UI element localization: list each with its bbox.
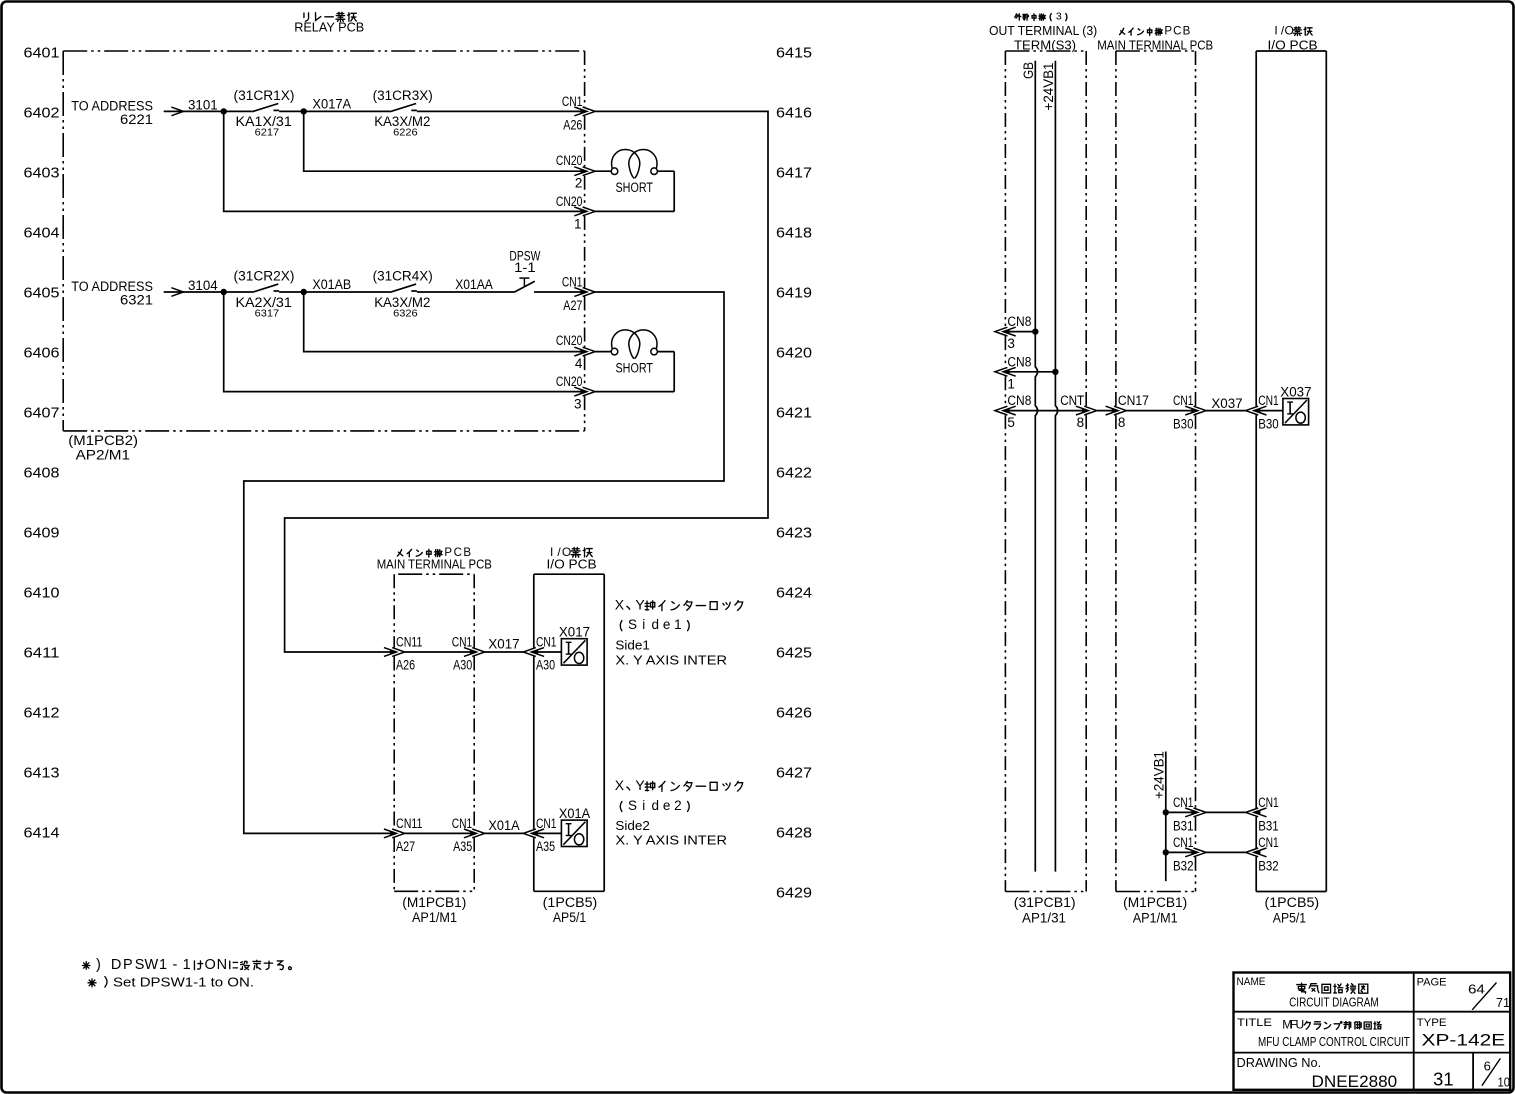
wire into I/O symbol X037 bbox=[1254, 410, 1283, 412]
svg-text:d: d bbox=[651, 617, 659, 632]
wire DPSW to CN1/A27 bbox=[534, 291, 585, 293]
svg-text:X037: X037 bbox=[1211, 396, 1242, 411]
svg-text:6423: 6423 bbox=[776, 524, 812, 541]
svg-text:S: S bbox=[628, 798, 637, 813]
svg-text:I/O PCB: I/O PCB bbox=[1268, 37, 1318, 52]
svg-text:I: I bbox=[1274, 23, 1277, 37]
svg-text:2: 2 bbox=[674, 798, 682, 813]
svg-text:+24VB1: +24VB1 bbox=[1151, 751, 1167, 799]
wire 3104 junction down to CN20/3 bbox=[224, 292, 585, 392]
svg-text:(31CR4X): (31CR4X) bbox=[373, 269, 433, 284]
svg-text:CN1: CN1 bbox=[536, 816, 557, 831]
svg-text:O: O bbox=[205, 957, 216, 973]
svg-text:X017: X017 bbox=[559, 625, 590, 640]
svg-text:64: 64 bbox=[1468, 981, 1485, 996]
wire between boxes bbox=[485, 651, 524, 653]
svg-text:6426: 6426 bbox=[776, 704, 812, 721]
svg-text:N: N bbox=[217, 957, 227, 973]
connector CN8 pin1 bbox=[1003, 371, 1055, 373]
svg-text:GB: GB bbox=[1020, 62, 1036, 79]
svg-text:3: 3 bbox=[1007, 336, 1015, 351]
title block frame bbox=[1234, 973, 1511, 1090]
svg-text:A27: A27 bbox=[396, 839, 415, 854]
svg-text:X. Y AXIS INTER: X. Y AXIS INTER bbox=[615, 833, 727, 847]
svg-text:Side1: Side1 bbox=[615, 638, 650, 652]
svg-text:3101: 3101 bbox=[188, 97, 218, 112]
net +24VB1 (bottom right) vertical bbox=[1165, 752, 1167, 882]
svg-text:SHORT: SHORT bbox=[616, 361, 654, 376]
wire into I/O symbol bbox=[532, 651, 562, 653]
junction dot at 3101 bbox=[221, 108, 227, 114]
svg-text:TITLE: TITLE bbox=[1237, 1017, 1272, 1029]
svg-text:CIRCUIT DIAGRAM: CIRCUIT DIAGRAM bbox=[1289, 995, 1379, 1010]
svg-text:MAIN TERMINAL PCB: MAIN TERMINAL PCB bbox=[377, 557, 492, 572]
svg-text:8: 8 bbox=[1118, 415, 1126, 430]
svg-text:A27: A27 bbox=[563, 298, 582, 313]
svg-text:6410: 6410 bbox=[24, 584, 60, 601]
svg-text:U: U bbox=[1295, 1018, 1304, 1032]
net GB vertical wire with hops bbox=[1035, 61, 1037, 872]
svg-text:CN20: CN20 bbox=[556, 153, 583, 168]
relay contact (31CR2X) KA2X/31 bbox=[252, 284, 278, 292]
connector CN1 B31 (main out) bbox=[1185, 808, 1198, 817]
svg-text:P: P bbox=[1164, 25, 1172, 37]
svg-text:O: O bbox=[1285, 23, 1294, 37]
main terminal headers (right) bbox=[1120, 28, 1125, 34]
svg-text:CN1: CN1 bbox=[1258, 835, 1279, 850]
svg-text:(31PCB1): (31PCB1) bbox=[1014, 895, 1076, 910]
svg-text:Set DPSW1-1 to ON.: Set DPSW1-1 to ON. bbox=[113, 975, 254, 990]
svg-text:B32: B32 bbox=[1258, 858, 1279, 873]
svg-text:XP-142E: XP-142E bbox=[1422, 1031, 1506, 1050]
main terminal PCB box (bottom, dashed, M1PCB1) bbox=[398, 573, 474, 575]
relay contact (31CR3X) KA3X/M2 bbox=[390, 104, 416, 112]
wire into I/O symbol bbox=[532, 832, 562, 834]
svg-text:6401: 6401 bbox=[24, 44, 60, 61]
svg-text:A30: A30 bbox=[536, 658, 555, 673]
svg-text:(1PCB5): (1PCB5) bbox=[543, 895, 598, 910]
svg-text:X017: X017 bbox=[488, 637, 519, 652]
svg-text:4: 4 bbox=[575, 356, 583, 371]
svg-text:6429: 6429 bbox=[776, 884, 812, 901]
svg-text:X017A: X017A bbox=[312, 97, 351, 112]
svg-text:AP1/M1: AP1/M1 bbox=[1133, 911, 1178, 926]
svg-text:6408: 6408 bbox=[24, 464, 60, 481]
svg-text:S: S bbox=[135, 957, 145, 973]
svg-text:I/O PCB: I/O PCB bbox=[547, 557, 597, 572]
svg-text:A35: A35 bbox=[453, 839, 472, 854]
connector CN20 pin3 bbox=[574, 387, 587, 396]
svg-text:6226: 6226 bbox=[393, 127, 418, 139]
connector CN20 pin4 bbox=[574, 347, 587, 356]
connector CN8 pin3 bbox=[1003, 331, 1035, 333]
svg-text:6403: 6403 bbox=[24, 164, 60, 181]
svg-text:6417: 6417 bbox=[776, 164, 812, 181]
svg-text:6427: 6427 bbox=[776, 764, 812, 781]
connector CNT pin8 (out term) bbox=[1076, 406, 1089, 415]
svg-text:6420: 6420 bbox=[776, 344, 812, 361]
svg-text:(31CR3X): (31CR3X) bbox=[373, 88, 433, 103]
wire +24VB1 to CN1 (main out) bbox=[1166, 811, 1196, 813]
svg-text:AP1/M1: AP1/M1 bbox=[412, 910, 457, 925]
svg-text:e: e bbox=[663, 617, 671, 632]
svg-text:X: X bbox=[615, 777, 625, 793]
main terminal PCB box (right, dashed, M1PCB1) bbox=[1116, 50, 1196, 52]
svg-text:B31: B31 bbox=[1258, 818, 1279, 833]
svg-text:A26: A26 bbox=[563, 118, 582, 133]
svg-text:CN1: CN1 bbox=[1258, 795, 1279, 810]
junction dot X01AB bbox=[301, 289, 307, 295]
svg-text:Side2: Side2 bbox=[615, 819, 650, 833]
svg-text:CN8: CN8 bbox=[1007, 314, 1031, 329]
svg-text:X01AB: X01AB bbox=[312, 277, 351, 292]
svg-text:3104: 3104 bbox=[188, 278, 218, 293]
main terminal PCB header (bottom) bbox=[397, 549, 402, 556]
svg-text:+24VB1: +24VB1 bbox=[1040, 62, 1056, 110]
relay contact (31CR1X) KA1X/31 bbox=[252, 104, 278, 112]
svg-text:6419: 6419 bbox=[776, 284, 812, 301]
svg-text:6404: 6404 bbox=[24, 224, 60, 241]
wire main to I/O bbox=[1206, 811, 1246, 813]
svg-text:Y: Y bbox=[635, 777, 645, 793]
svg-text:6415: 6415 bbox=[776, 44, 812, 61]
wire to X01AA bbox=[417, 291, 514, 293]
svg-text:CN1: CN1 bbox=[1258, 393, 1279, 408]
junction dot CN8/3 on GB bbox=[1032, 328, 1038, 334]
wire +24VB1 to CN1 (main out) bbox=[1166, 851, 1196, 853]
svg-text:6424: 6424 bbox=[776, 584, 812, 601]
svg-text:CN20: CN20 bbox=[556, 374, 583, 389]
svg-text:6406: 6406 bbox=[24, 344, 60, 361]
svg-text:TERM(S3): TERM(S3) bbox=[1014, 37, 1076, 52]
svg-text:X01A: X01A bbox=[559, 806, 590, 821]
svg-text:Y: Y bbox=[635, 597, 645, 613]
svg-text:i: i bbox=[642, 798, 645, 813]
svg-text:DNEE2880: DNEE2880 bbox=[1312, 1072, 1398, 1091]
svg-text:MAIN TERMINAL PCB: MAIN TERMINAL PCB bbox=[1097, 37, 1213, 52]
svg-text:AP5/1: AP5/1 bbox=[1273, 911, 1306, 926]
junction dot CN8/1 on +24VB1 bbox=[1052, 369, 1058, 375]
SHORT jumper plug 1 bbox=[595, 170, 611, 172]
svg-text:CN1: CN1 bbox=[452, 816, 473, 831]
wire main to I/O bbox=[1206, 851, 1246, 853]
svg-text:1: 1 bbox=[574, 216, 582, 231]
svg-text:(1PCB5): (1PCB5) bbox=[1265, 895, 1320, 910]
wire X017A junction down to CN20/2 bbox=[304, 111, 585, 171]
connector CN1 B30 (I/O in) bbox=[1254, 406, 1267, 415]
wire X01AB junction down to CN20/4 bbox=[304, 292, 585, 352]
svg-text:3: 3 bbox=[1056, 11, 1062, 23]
svg-text:TYPE: TYPE bbox=[1417, 1017, 1447, 1029]
svg-text:CN1: CN1 bbox=[562, 274, 583, 289]
svg-text:6414: 6414 bbox=[24, 824, 60, 841]
svg-text:B32: B32 bbox=[1173, 858, 1194, 873]
svg-text:-: - bbox=[172, 957, 177, 973]
svg-text:CN1: CN1 bbox=[452, 634, 473, 649]
svg-text:d: d bbox=[651, 798, 659, 813]
wire contact to X01AB junction bbox=[279, 291, 390, 293]
svg-text:CN20: CN20 bbox=[556, 333, 583, 348]
wire 3104 to contact bbox=[183, 291, 252, 293]
svg-text:DRAWING No.: DRAWING No. bbox=[1237, 1055, 1322, 1070]
connector CN1 (I/O in) bbox=[532, 829, 545, 838]
wire to CN1/A26 connector bbox=[417, 110, 585, 112]
connector CN20 pin2 bbox=[574, 167, 587, 176]
wire contact to X017A junction bbox=[279, 110, 390, 112]
out terminal headers bbox=[1015, 14, 1021, 20]
svg-text:W: W bbox=[145, 957, 159, 973]
svg-text:1: 1 bbox=[183, 957, 191, 973]
svg-text:X. Y AXIS INTER: X. Y AXIS INTER bbox=[615, 654, 727, 668]
svg-text:(31CR1X): (31CR1X) bbox=[234, 88, 295, 103]
svg-text:5: 5 bbox=[1007, 415, 1015, 430]
I/O symbol X017 bbox=[561, 639, 587, 665]
svg-text:6421: 6421 bbox=[776, 404, 812, 421]
net +24VB1 vertical wire with hops bbox=[1055, 61, 1057, 872]
svg-text:6413: 6413 bbox=[24, 764, 60, 781]
svg-text:CN1: CN1 bbox=[1173, 393, 1194, 408]
svg-text:6326: 6326 bbox=[393, 307, 418, 319]
svg-text:6418: 6418 bbox=[776, 224, 812, 241]
svg-text:AP2/M1: AP2/M1 bbox=[76, 447, 130, 462]
connector CN11 (main in) bbox=[405, 832, 474, 834]
svg-text:CN17: CN17 bbox=[1118, 393, 1149, 408]
svg-text:X01AA: X01AA bbox=[455, 277, 493, 292]
junction dot B32 bbox=[1163, 849, 1169, 855]
svg-text:6221: 6221 bbox=[120, 112, 153, 127]
svg-text:6402: 6402 bbox=[24, 104, 60, 121]
note English: Set DPSW1-1 to ON. bbox=[88, 979, 96, 987]
connector CN1 (main out) bbox=[464, 648, 477, 657]
wire between boxes bbox=[485, 832, 524, 834]
DIP switch DPSW 1-1 bbox=[514, 281, 535, 292]
svg-text:C: C bbox=[1173, 25, 1181, 37]
I/O symbol X037 bbox=[1283, 399, 1309, 425]
svg-text:X: X bbox=[615, 597, 625, 613]
svg-text:X037: X037 bbox=[1280, 385, 1311, 400]
svg-text:6428: 6428 bbox=[776, 824, 812, 841]
svg-text:6409: 6409 bbox=[24, 524, 60, 541]
svg-text:S: S bbox=[628, 617, 637, 632]
svg-text:D: D bbox=[111, 957, 121, 973]
connector CN1 A27 (relay out) bbox=[574, 288, 587, 297]
svg-text:71: 71 bbox=[1496, 995, 1510, 1010]
svg-text:): ) bbox=[96, 957, 101, 973]
relay PCB header bbox=[304, 13, 309, 21]
svg-text:CNT: CNT bbox=[1060, 393, 1084, 408]
svg-text:6422: 6422 bbox=[776, 464, 812, 481]
junction dot X017A bbox=[301, 108, 307, 114]
svg-text:CN1: CN1 bbox=[562, 94, 583, 109]
connector CN1 (I/O in) bbox=[532, 648, 545, 657]
SHORT jumper plug 2 bbox=[595, 351, 611, 353]
svg-text:1: 1 bbox=[159, 957, 167, 973]
svg-text:2: 2 bbox=[575, 175, 583, 190]
svg-text:1-1: 1-1 bbox=[514, 260, 536, 275]
svg-text:6425: 6425 bbox=[776, 644, 812, 661]
wire to I/O box, node X037 bbox=[1206, 410, 1246, 412]
connector CN1 B30 (main out) bbox=[1185, 406, 1198, 415]
svg-text:CN1: CN1 bbox=[536, 634, 557, 649]
svg-text:(31CR2X): (31CR2X) bbox=[234, 269, 295, 284]
connector CN1 (main out) bbox=[464, 829, 477, 838]
svg-text:(M1PCB2): (M1PCB2) bbox=[68, 433, 138, 448]
connector CN17 pin8 (main in) bbox=[1106, 406, 1119, 415]
svg-text:CN11: CN11 bbox=[396, 816, 423, 831]
svg-text:B31: B31 bbox=[1173, 818, 1194, 833]
wire CNT to CN17 bbox=[1097, 410, 1116, 412]
relay PCB box (dashed, M1PCB2) bbox=[63, 50, 584, 52]
wire net A27: CN1/A27 to CN11/A27 bbox=[244, 292, 724, 833]
connector CN11 (main in) bbox=[405, 651, 474, 653]
svg-text:6: 6 bbox=[1484, 1059, 1491, 1074]
I/O PCB box (right, solid, 1PCB5) bbox=[1256, 50, 1326, 52]
svg-text:OUT TERMINAL (3): OUT TERMINAL (3) bbox=[989, 23, 1097, 38]
wire 3101 junction down to CN20/1 bbox=[224, 111, 585, 211]
svg-text:RELAY PCB: RELAY PCB bbox=[294, 20, 364, 35]
svg-text:i: i bbox=[642, 617, 645, 632]
wire 3101 to contact bbox=[183, 110, 252, 112]
svg-text:e: e bbox=[663, 798, 671, 813]
out terminal(3) box (dashed, 31PCB1) bbox=[1005, 50, 1086, 52]
svg-text:A30: A30 bbox=[453, 658, 472, 673]
flow arrow into 3104 bbox=[164, 291, 184, 293]
svg-text:CN1: CN1 bbox=[1173, 795, 1194, 810]
connector CN20 pin1 bbox=[574, 207, 587, 216]
flow arrow into 3101 bbox=[164, 110, 184, 112]
svg-text:CN11: CN11 bbox=[396, 634, 423, 649]
svg-text:3: 3 bbox=[574, 397, 582, 412]
svg-text:31: 31 bbox=[1433, 1069, 1453, 1089]
svg-text:6405: 6405 bbox=[24, 284, 60, 301]
svg-text:AP5/1: AP5/1 bbox=[553, 910, 586, 925]
connector CN1 B32 (I/O in) bbox=[1254, 848, 1267, 857]
svg-text:B: B bbox=[1183, 25, 1191, 37]
svg-text:1: 1 bbox=[674, 617, 682, 632]
I/O PCB box (bottom, solid, 1PCB5) bbox=[534, 573, 604, 575]
svg-text:6412: 6412 bbox=[24, 704, 60, 721]
svg-text:10: 10 bbox=[1498, 1074, 1511, 1089]
svg-text:CN8: CN8 bbox=[1007, 354, 1031, 369]
svg-text:(M1PCB1): (M1PCB1) bbox=[402, 895, 466, 910]
svg-text:NAME: NAME bbox=[1237, 976, 1266, 988]
connector CN1 A26 (relay out) bbox=[574, 107, 587, 116]
svg-text:MFU CLAMP CONTROL CIRCUIT: MFU CLAMP CONTROL CIRCUIT bbox=[1258, 1034, 1410, 1049]
connector CN1 B32 (main out) bbox=[1185, 848, 1198, 857]
svg-text:8: 8 bbox=[1077, 415, 1085, 430]
svg-text:AP1/31: AP1/31 bbox=[1022, 911, 1066, 926]
svg-text:A35: A35 bbox=[536, 839, 555, 854]
svg-text:(M1PCB1): (M1PCB1) bbox=[1123, 895, 1187, 910]
connector CN1 B31 (I/O in) bbox=[1254, 808, 1267, 817]
wire net A26: CN1/A26 to CN11/A26 bbox=[285, 111, 768, 652]
note Japanese: DPSW1-1 wa ON ni settei suru bbox=[82, 962, 90, 970]
svg-text:B30: B30 bbox=[1173, 417, 1194, 432]
svg-text:6217: 6217 bbox=[255, 127, 280, 139]
svg-text:CN20: CN20 bbox=[556, 194, 583, 209]
svg-text:X01A: X01A bbox=[488, 818, 519, 833]
svg-text:CN1: CN1 bbox=[1173, 835, 1194, 850]
svg-text:PAGE: PAGE bbox=[1417, 976, 1447, 988]
relay contact (31CR4X) KA3X/M2 bbox=[390, 284, 416, 292]
svg-text:6411: 6411 bbox=[24, 644, 60, 661]
svg-text:6317: 6317 bbox=[255, 307, 280, 319]
I/O symbol X01A bbox=[561, 820, 587, 846]
svg-text:6321: 6321 bbox=[120, 292, 153, 307]
junction dot at 3104 bbox=[221, 289, 227, 295]
connector CN8 pin5 wire through to I/O bbox=[1003, 410, 1086, 412]
svg-text:A26: A26 bbox=[396, 658, 415, 673]
wire across main box bbox=[1126, 410, 1195, 412]
svg-text:P: P bbox=[123, 957, 133, 973]
svg-text:6407: 6407 bbox=[24, 404, 60, 421]
svg-text:6416: 6416 bbox=[776, 104, 812, 121]
svg-text:1: 1 bbox=[1007, 376, 1015, 391]
svg-text:CN8: CN8 bbox=[1007, 393, 1031, 408]
junction dot B31 bbox=[1163, 809, 1169, 815]
svg-text:SHORT: SHORT bbox=[616, 180, 654, 195]
svg-text:B30: B30 bbox=[1258, 417, 1279, 432]
